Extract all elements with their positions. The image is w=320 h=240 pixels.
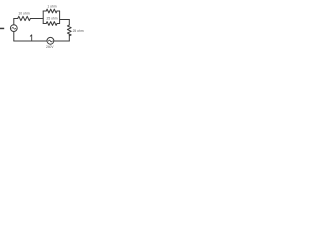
wire top branch right: [57, 10, 60, 12]
wire node B to corner: [60, 19, 70, 21]
wire bottom rail left: [14, 40, 47, 42]
resistor R1: [18, 16, 31, 20]
svg-text:25 ohm: 25 ohm: [73, 29, 84, 33]
wire source top to rail: [13, 19, 15, 25]
resistor R3: [46, 22, 57, 26]
label V at edge: [0, 28, 4, 30]
wire bottom branch left: [43, 23, 46, 25]
svg-text:10 ohm: 10 ohm: [18, 12, 29, 16]
svg-text:240V: 240V: [46, 45, 54, 49]
wire rail to node A: [30, 18, 43, 20]
resistor R4: [67, 25, 71, 36]
node B right junction: [59, 11, 61, 24]
wire bottom rail right: [54, 40, 70, 42]
svg-text:25 ohm: 25 ohm: [47, 17, 58, 21]
resistor R2: [46, 9, 57, 13]
node A left junction: [42, 11, 44, 24]
svg-text:1 ohm: 1 ohm: [47, 4, 56, 8]
AC source V1: [10, 25, 17, 32]
sine symbol inside ammeter: [49, 40, 53, 42]
sine symbol inside source: [12, 28, 16, 30]
wire top rail left: [14, 18, 18, 20]
current arrow I: [30, 35, 31, 41]
wire source bottom: [13, 32, 15, 42]
wire right down: [68, 20, 70, 26]
wire top branch left: [43, 10, 46, 12]
wire bottom branch right: [57, 23, 60, 25]
wire resistor to bottom rail: [68, 34, 70, 41]
ammeter A1: [47, 37, 54, 44]
